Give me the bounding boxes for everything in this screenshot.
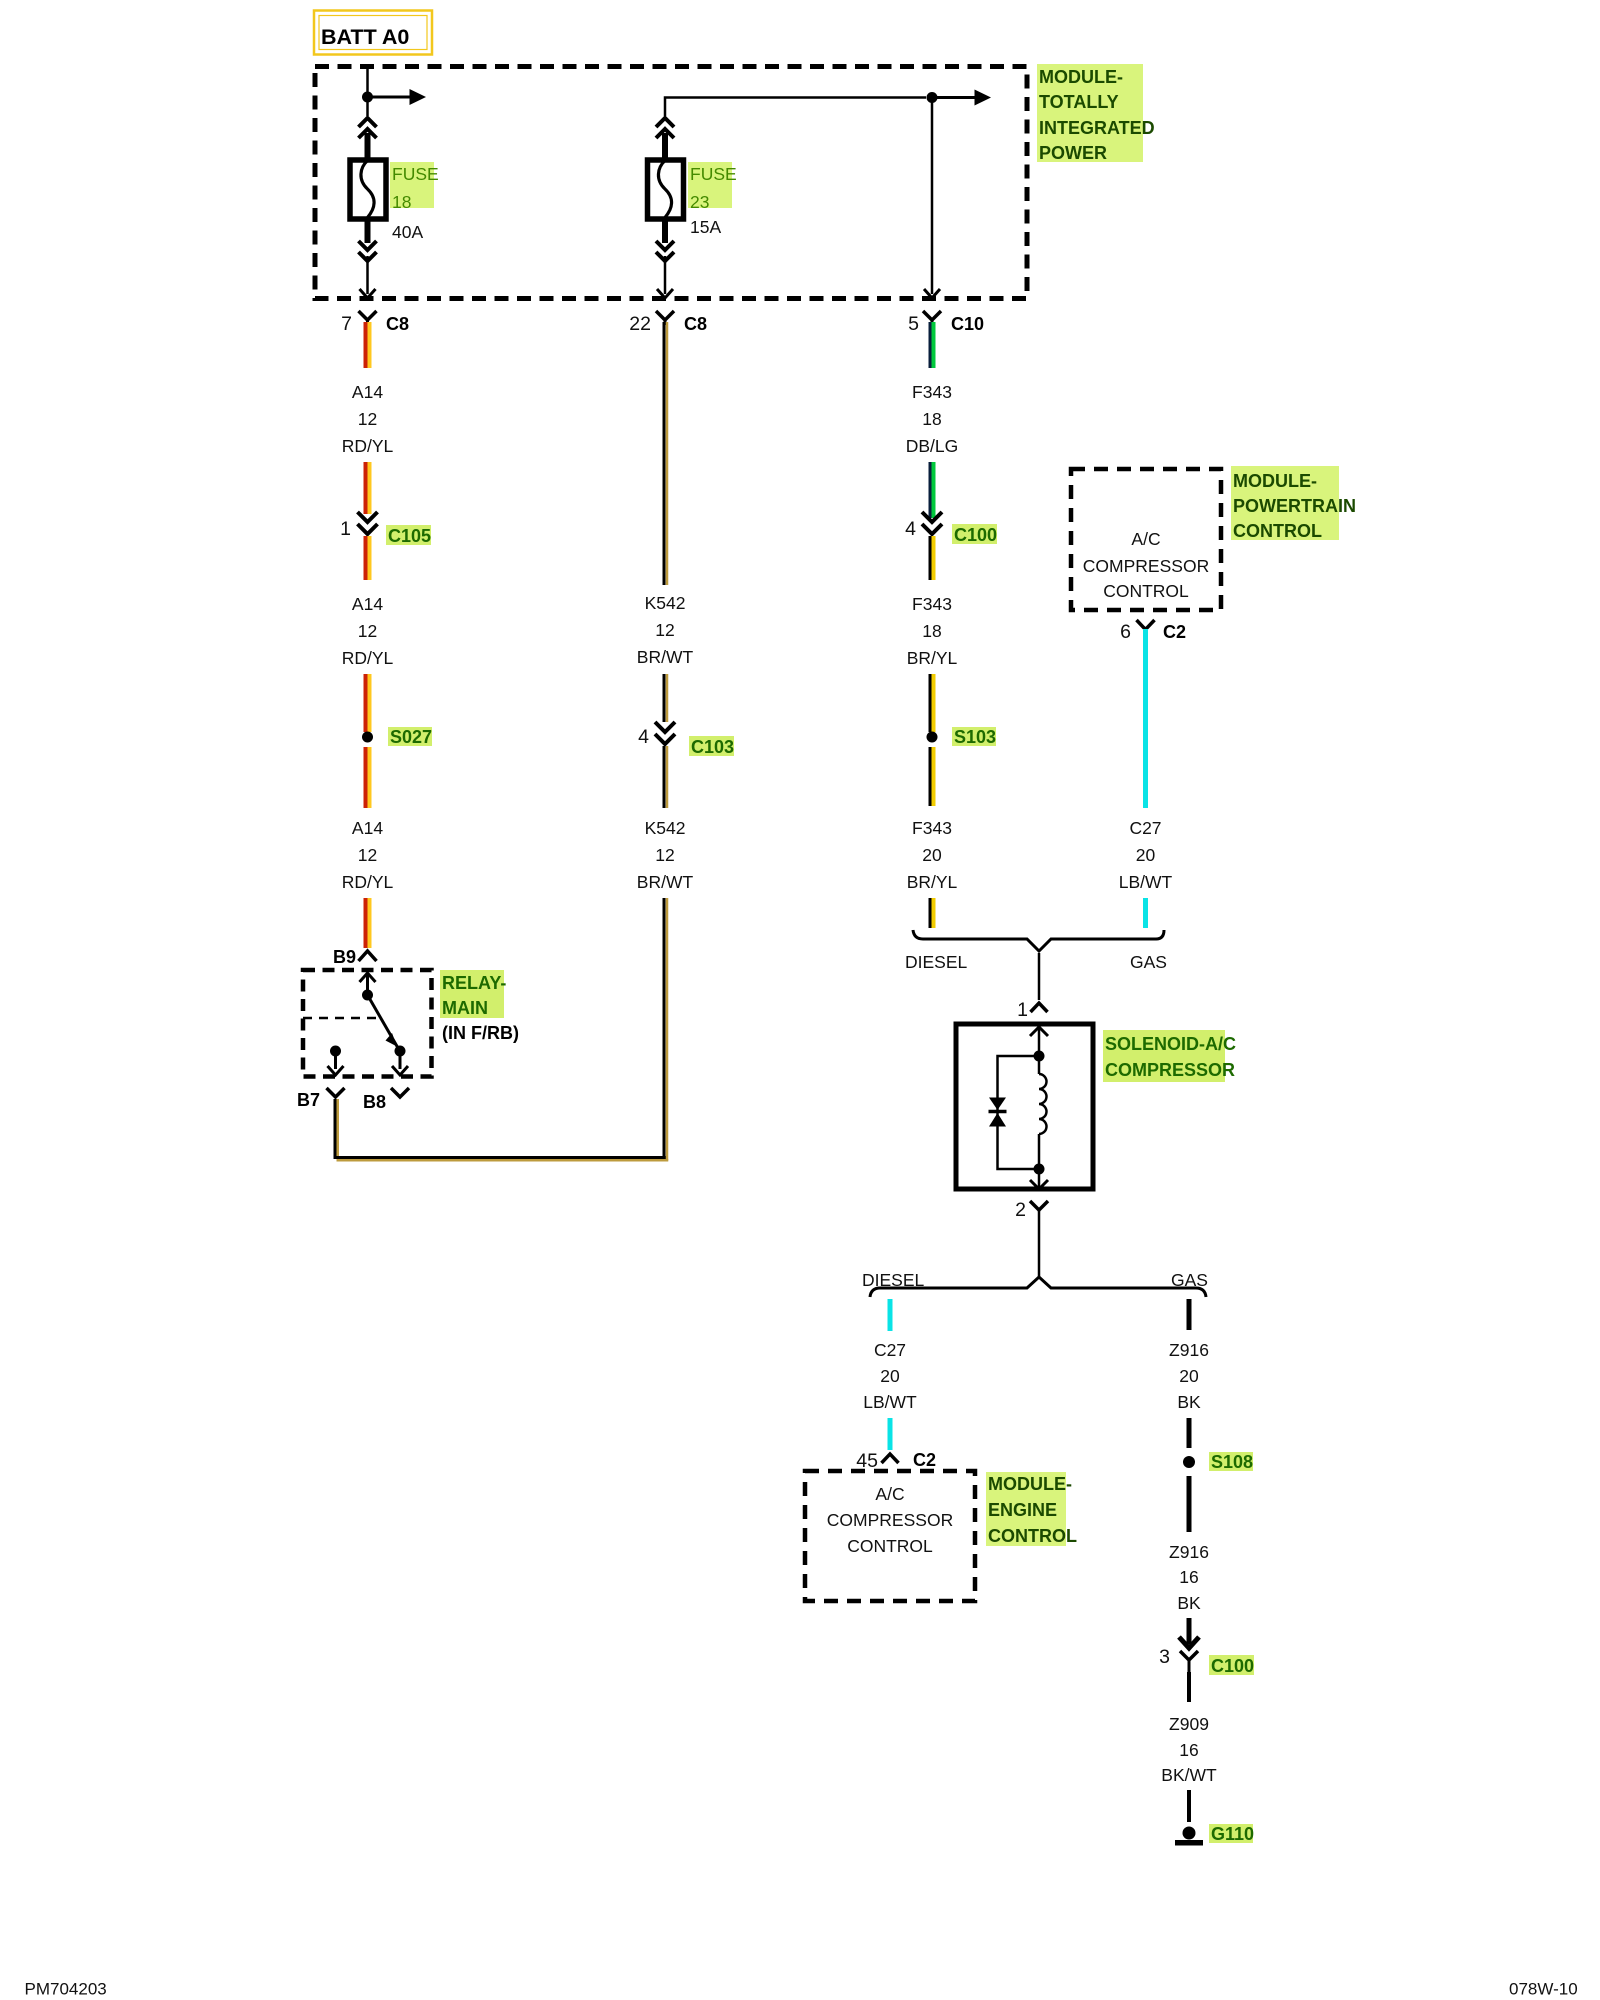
svg-text:A14: A14 bbox=[352, 594, 383, 614]
wire merge to solenoid pin 1 bbox=[1038, 953, 1041, 1000]
wire B7 return BR/WT down-right to K542 bbox=[335, 1099, 668, 1160]
label C27 20 LB/WT (1) bbox=[1119, 818, 1173, 892]
svg-text:CONTROL: CONTROL bbox=[847, 1536, 933, 1556]
svg-text:RD/YL: RD/YL bbox=[342, 648, 394, 668]
svg-text:C100: C100 bbox=[1211, 1656, 1254, 1676]
svg-text:F343: F343 bbox=[912, 382, 952, 402]
wire solenoid pin2 to split bbox=[1038, 1222, 1041, 1279]
svg-text:Z916: Z916 bbox=[1169, 1340, 1209, 1360]
label A/C COMPRESSOR CONTROL (ECM) bbox=[827, 1484, 953, 1556]
relay contact B7 leg bbox=[328, 1046, 344, 1076]
wire A14 RD/YL segment 5 bbox=[366, 747, 370, 808]
fuse F23 lead bottom bbox=[662, 219, 668, 243]
label RELAY-MAIN (IN F/RB) bbox=[440, 970, 519, 1043]
svg-text:23: 23 bbox=[690, 192, 709, 212]
wire Z909 BK/WT segment 1 bbox=[1187, 1672, 1191, 1702]
svg-text:K542: K542 bbox=[645, 593, 686, 613]
label Z916 20 BK bbox=[1169, 1340, 1209, 1412]
connector C105 pin 1 bbox=[340, 512, 431, 546]
svg-text:20: 20 bbox=[1179, 1366, 1199, 1386]
wire F343 BR/YL segment 1 bbox=[930, 536, 934, 580]
arrow at TIPM edge col2 bbox=[657, 289, 673, 298]
connector chevrons below fuse 18 bbox=[359, 241, 377, 261]
svg-text:CONTROL: CONTROL bbox=[1233, 521, 1322, 541]
svg-text:POWERTRAIN: POWERTRAIN bbox=[1233, 496, 1356, 516]
svg-text:C10: C10 bbox=[951, 314, 984, 334]
svg-text:12: 12 bbox=[358, 845, 377, 865]
wire Z916 BK gas segment 2 bbox=[1187, 1418, 1192, 1448]
solenoid internal wire top bbox=[1038, 1026, 1041, 1056]
svg-text:F343: F343 bbox=[912, 818, 952, 838]
fuse F18 lead top bbox=[365, 133, 371, 160]
svg-text:MODULE-: MODULE- bbox=[988, 1474, 1072, 1494]
wire F343 BR/YL segment 4 bbox=[930, 898, 934, 928]
svg-text:20: 20 bbox=[922, 845, 942, 865]
svg-text:1: 1 bbox=[340, 518, 351, 540]
solenoid internal junction bottom bbox=[1034, 1164, 1045, 1175]
svg-text:12: 12 bbox=[358, 621, 377, 641]
svg-text:1: 1 bbox=[1017, 999, 1028, 1021]
svg-text:4: 4 bbox=[638, 726, 649, 748]
label MODULE-TOTALLY INTEGRATED POWER bbox=[1037, 64, 1155, 163]
wire fuse 23 riser and top feed bbox=[665, 98, 926, 117]
svg-text:DIESEL: DIESEL bbox=[862, 1270, 925, 1290]
label A14 12 RD/YL (2) bbox=[342, 594, 394, 668]
svg-text:BR/WT: BR/WT bbox=[637, 647, 694, 667]
wire battery feed into fuse 18 bbox=[366, 66, 369, 94]
svg-text:BR/YL: BR/YL bbox=[907, 648, 958, 668]
svg-text:C2: C2 bbox=[1163, 622, 1186, 642]
svg-text:PM704203: PM704203 bbox=[25, 1980, 107, 1999]
svg-text:FUSE: FUSE bbox=[690, 164, 737, 184]
wire bus junction down to C10 edge bbox=[931, 98, 934, 295]
svg-text:S103: S103 bbox=[954, 727, 996, 747]
fuse F18 lead bottom bbox=[365, 219, 371, 243]
label A14 12 RD/YL (3) bbox=[342, 818, 394, 892]
svg-text:RELAY-: RELAY- bbox=[442, 973, 506, 993]
label Z916 16 BK bbox=[1169, 1542, 1209, 1613]
svg-text:3: 3 bbox=[1159, 1646, 1170, 1668]
svg-text:COMPRESSOR: COMPRESSOR bbox=[1083, 556, 1209, 576]
svg-text:20: 20 bbox=[880, 1366, 900, 1386]
label A14 12 RD/YL (1) bbox=[342, 382, 394, 456]
svg-text:C2: C2 bbox=[913, 1450, 936, 1470]
junction dot above fuse 18 bbox=[362, 92, 373, 103]
wire fuse 18 to C8 edge bbox=[366, 256, 369, 294]
svg-text:A/C: A/C bbox=[875, 1484, 904, 1504]
label C27 20 LB/WT (2) bbox=[863, 1340, 917, 1412]
relay pin B8 bbox=[363, 1088, 409, 1112]
wire A14 RD/YL segment 4 bbox=[366, 674, 370, 732]
wire Z916 BK segment 3 bbox=[1187, 1476, 1192, 1532]
svg-text:B9: B9 bbox=[333, 947, 356, 967]
wire Z916 BK segment 4 with arrow bbox=[1179, 1618, 1199, 1648]
solenoid internal wire bottom with arrow out bbox=[1030, 1169, 1048, 1189]
svg-text:2: 2 bbox=[1015, 1199, 1026, 1221]
svg-text:B7: B7 bbox=[297, 1090, 320, 1110]
svg-text:18: 18 bbox=[922, 409, 941, 429]
wire K542 BR/WT segment 1 bbox=[664, 322, 667, 585]
svg-text:40A: 40A bbox=[392, 222, 423, 242]
svg-text:C105: C105 bbox=[388, 526, 431, 546]
svg-text:18: 18 bbox=[922, 621, 941, 641]
arrow at TIPM edge col1 bbox=[360, 289, 376, 298]
svg-text:15A: 15A bbox=[690, 217, 721, 237]
label A/C COMPRESSOR CONTROL (PCM) bbox=[1083, 529, 1209, 601]
svg-text:POWER: POWER bbox=[1039, 143, 1107, 163]
relay coil divider dashed line bbox=[303, 1017, 377, 1020]
relay pin B9 bbox=[333, 947, 377, 967]
label F343 18 BR/YL bbox=[907, 594, 958, 668]
svg-text:FUSE: FUSE bbox=[392, 164, 439, 184]
solenoid A/C compressor box bbox=[956, 1024, 1093, 1189]
relay pin B7 bbox=[297, 1088, 345, 1110]
connector C100 pin 3 bbox=[1159, 1646, 1254, 1676]
relay common arrow to B9 bbox=[360, 973, 376, 1001]
label K542 12 BR/WT (1) bbox=[637, 593, 694, 667]
diode (transient suppressor) bbox=[989, 1098, 1007, 1127]
wire A14 RD/YL segment 1 bbox=[366, 322, 370, 368]
svg-text:LB/WT: LB/WT bbox=[1119, 872, 1173, 892]
svg-text:BR/WT: BR/WT bbox=[637, 872, 694, 892]
svg-text:ENGINE: ENGINE bbox=[988, 1500, 1057, 1520]
arrow at TIPM edge col3 bbox=[924, 289, 940, 298]
label FUSE 18 40A bbox=[390, 162, 439, 242]
connector C100 pin 4 bbox=[905, 512, 997, 545]
wire A14 RD/YL segment 6 bbox=[366, 898, 370, 948]
wire K542 BR/WT segment 3 bbox=[664, 746, 667, 808]
connector chevrons below fuse 23 bbox=[656, 241, 674, 261]
label K542 12 BR/WT (2) bbox=[637, 818, 694, 892]
wire arrow feed right from junction bbox=[368, 89, 427, 105]
svg-text:Z909: Z909 bbox=[1169, 1714, 1209, 1734]
svg-text:DIESEL: DIESEL bbox=[905, 952, 968, 972]
svg-text:S108: S108 bbox=[1211, 1452, 1253, 1472]
connector chevrons above fuse 18 bbox=[359, 118, 377, 138]
solenoid coil bbox=[1039, 1056, 1047, 1169]
svg-text:BATT A0: BATT A0 bbox=[321, 25, 409, 49]
connector chevrons above fuse 23 bbox=[656, 118, 674, 138]
svg-text:BR/YL: BR/YL bbox=[907, 872, 958, 892]
svg-text:COMPRESSOR: COMPRESSOR bbox=[1105, 1060, 1235, 1080]
svg-text:C103: C103 bbox=[691, 737, 734, 757]
splice S103 bbox=[927, 727, 997, 747]
wire F343 BR/YL segment 2 bbox=[930, 674, 934, 732]
wire arrow feed right from bus junction bbox=[932, 90, 991, 106]
svg-text:20: 20 bbox=[1136, 845, 1156, 865]
svg-text:MODULE-: MODULE- bbox=[1233, 471, 1317, 491]
svg-text:6: 6 bbox=[1120, 621, 1131, 643]
svg-text:C8: C8 bbox=[386, 314, 409, 334]
svg-text:18: 18 bbox=[392, 192, 411, 212]
svg-text:22: 22 bbox=[629, 313, 651, 335]
relay MAIN dashed box bbox=[303, 970, 432, 1077]
svg-text:SOLENOID-A/C: SOLENOID-A/C bbox=[1105, 1034, 1236, 1054]
svg-text:12: 12 bbox=[655, 620, 674, 640]
wire K542 BR/WT segment 4 bbox=[664, 898, 667, 1161]
svg-text:Z916: Z916 bbox=[1169, 1542, 1209, 1562]
label F343 18 DB/LG bbox=[906, 382, 959, 456]
solenoid internal junction top bbox=[1034, 1051, 1045, 1062]
module ECM dashed box bbox=[805, 1471, 975, 1601]
svg-text:S027: S027 bbox=[390, 727, 432, 747]
wire C27 LB/WT segment 1 bbox=[1143, 629, 1148, 808]
solenoid diode branch bbox=[998, 1056, 1040, 1169]
svg-text:C100: C100 bbox=[954, 525, 997, 545]
svg-text:4: 4 bbox=[905, 518, 916, 540]
connector C8 pin 7 bbox=[341, 311, 409, 335]
svg-text:CONTROL: CONTROL bbox=[988, 1526, 1077, 1546]
wire junction to fuse 18 bbox=[366, 97, 369, 116]
svg-text:45: 45 bbox=[856, 1450, 878, 1472]
ground G110 bbox=[1175, 1824, 1254, 1846]
solenoid pin 2 bbox=[1015, 1199, 1048, 1222]
svg-text:F343: F343 bbox=[912, 594, 952, 614]
splice S108 bbox=[1183, 1452, 1253, 1472]
svg-text:16: 16 bbox=[1179, 1567, 1198, 1587]
connector C8 pin 22 bbox=[629, 311, 707, 335]
svg-text:LB/WT: LB/WT bbox=[863, 1392, 917, 1412]
svg-text:K542: K542 bbox=[645, 818, 686, 838]
wire A14 RD/YL segment 2 bbox=[366, 462, 370, 514]
connector C103 pin 4 bbox=[638, 722, 734, 757]
solenoid pin 1 bbox=[1017, 999, 1047, 1021]
svg-text:RD/YL: RD/YL bbox=[342, 872, 394, 892]
svg-text:GAS: GAS bbox=[1171, 1270, 1208, 1290]
svg-text:CONTROL: CONTROL bbox=[1103, 581, 1189, 601]
connector C10 pin 5 bbox=[908, 311, 984, 335]
wire K542 BR/WT segment 2 bbox=[664, 674, 667, 722]
svg-text:A14: A14 bbox=[352, 382, 383, 402]
wire fuse 23 to C8 edge bbox=[664, 256, 667, 294]
svg-text:BK/WT: BK/WT bbox=[1161, 1765, 1217, 1785]
fuse F23 bbox=[648, 160, 684, 219]
connector C2 pin 45 bbox=[856, 1450, 936, 1472]
split brace DIESEL/GAS bbox=[870, 1277, 1206, 1297]
fuse F23 lead top bbox=[662, 133, 668, 160]
svg-text:BK: BK bbox=[1177, 1593, 1201, 1613]
svg-text:12: 12 bbox=[655, 845, 674, 865]
fuse F18 bbox=[350, 160, 386, 219]
wire A14 RD/YL segment 3 bbox=[366, 536, 370, 580]
svg-text:C27: C27 bbox=[1129, 818, 1161, 838]
wire F343 DB/LG segment 2 bbox=[930, 462, 934, 518]
svg-text:16: 16 bbox=[1179, 1740, 1198, 1760]
wire C27 LB/WT diesel segment 1 bbox=[888, 1299, 893, 1331]
svg-text:5: 5 bbox=[908, 313, 919, 335]
label MODULE-ENGINE CONTROL bbox=[986, 1472, 1077, 1546]
svg-text:BK: BK bbox=[1177, 1392, 1201, 1412]
svg-text:078W-10: 078W-10 bbox=[1509, 1980, 1578, 1999]
svg-text:A/C: A/C bbox=[1131, 529, 1160, 549]
wire C27 LB/WT diesel segment 2 bbox=[888, 1418, 893, 1450]
merge brace DIESEL/GAS bbox=[913, 930, 1164, 951]
svg-text:MAIN: MAIN bbox=[442, 998, 488, 1018]
svg-text:7: 7 bbox=[341, 313, 352, 335]
svg-text:G110: G110 bbox=[1211, 1824, 1254, 1844]
svg-text:COMPRESSOR: COMPRESSOR bbox=[827, 1510, 953, 1530]
splice S027 bbox=[362, 727, 432, 747]
connector C2 pin 6 bbox=[1120, 620, 1186, 643]
svg-text:MODULE-: MODULE- bbox=[1039, 67, 1123, 87]
wire Z916 BK gas segment 1 bbox=[1187, 1299, 1192, 1330]
svg-text:A14: A14 bbox=[352, 818, 383, 838]
label SOLENOID-A/C COMPRESSOR bbox=[1103, 1030, 1236, 1082]
solenoid internal arrow in bbox=[1030, 1027, 1048, 1036]
svg-text:INTEGRATED: INTEGRATED bbox=[1039, 118, 1155, 138]
svg-text:12: 12 bbox=[358, 409, 377, 429]
label FUSE 23 15A bbox=[688, 162, 737, 237]
label F343 20 BR/YL bbox=[907, 818, 958, 892]
wire C27 LB/WT segment 2 bbox=[1143, 898, 1148, 928]
wire Z909 BK/WT segment 2 bbox=[1187, 1790, 1191, 1822]
wire F343 DB/LG segment 1 bbox=[930, 322, 934, 368]
svg-text:(IN F/RB): (IN F/RB) bbox=[442, 1023, 519, 1043]
svg-text:C27: C27 bbox=[874, 1340, 906, 1360]
svg-text:DB/LG: DB/LG bbox=[906, 436, 959, 456]
label MODULE-POWERTRAIN CONTROL bbox=[1231, 466, 1356, 541]
power source BATT A0 bbox=[314, 11, 432, 55]
svg-text:TOTALLY: TOTALLY bbox=[1039, 92, 1119, 112]
wire F343 BR/YL segment 3 bbox=[930, 747, 934, 806]
relay contact B8 leg bbox=[392, 1051, 408, 1075]
svg-text:GAS: GAS bbox=[1130, 952, 1167, 972]
svg-text:B8: B8 bbox=[363, 1092, 386, 1112]
junction dot on TIPM feed bus bbox=[927, 92, 938, 103]
relay switch blade bbox=[368, 995, 406, 1057]
module PCM dashed box bbox=[1071, 469, 1221, 610]
module TIPM dashed box bbox=[315, 67, 1027, 299]
svg-text:RD/YL: RD/YL bbox=[342, 436, 394, 456]
label Z909 16 BK/WT bbox=[1161, 1714, 1217, 1785]
svg-text:C8: C8 bbox=[684, 314, 707, 334]
